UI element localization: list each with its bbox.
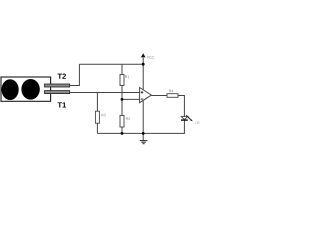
- resistor R3: [95, 111, 99, 123]
- resistor R4: [167, 94, 178, 98]
- label R4: [169, 90, 173, 92]
- wire bottom rail: [97, 120, 184, 133]
- wire VCC vertical: [142, 58, 144, 90]
- wire R3 bottom lead: [96, 123, 98, 133]
- ferrite bar T1: [45, 91, 70, 94]
- ground: [140, 140, 148, 142]
- junction minus node: [121, 98, 124, 101]
- resistor R1: [120, 75, 124, 86]
- wire T2 to riser: [70, 64, 80, 85]
- wire T1 to op-amp + input: [70, 92, 140, 94]
- LED D1: [181, 117, 187, 120]
- wire top rail to VCC node: [79, 63, 143, 65]
- wire op-amp V- to ground: [142, 101, 144, 140]
- resistor R2: [120, 115, 124, 127]
- wire R2 top lead: [121, 99, 123, 115]
- label R1: [125, 75, 129, 77]
- wire minus input: [122, 98, 140, 100]
- LED emission arrow 2: [188, 117, 191, 120]
- label R2: [126, 117, 130, 120]
- label T1: [58, 102, 66, 107]
- wire R1 top lead: [121, 64, 123, 74]
- junction VCC node: [142, 63, 145, 66]
- wire op-amp output: [151, 95, 167, 97]
- ferrite bar T2: [45, 84, 70, 87]
- wire R1 bottom to minus node: [121, 86, 123, 100]
- wire R2 bottom lead: [121, 127, 123, 133]
- toroid core right: [21, 79, 39, 100]
- junction R2 bottom: [121, 132, 124, 135]
- wire R4 to LED: [178, 96, 184, 117]
- LED emission arrow 1: [186, 115, 189, 117]
- label R3: [102, 114, 106, 117]
- label LED: [196, 122, 201, 124]
- op-amp U1: [140, 88, 152, 103]
- VCC arrow: [141, 53, 146, 57]
- transformer body T1/T2: [1, 77, 51, 101]
- junction ground node: [142, 132, 145, 135]
- wire R3 top lead: [96, 93, 98, 112]
- label VCC: [147, 56, 154, 58]
- label T2: [58, 74, 66, 79]
- toroid core left: [2, 79, 19, 100]
